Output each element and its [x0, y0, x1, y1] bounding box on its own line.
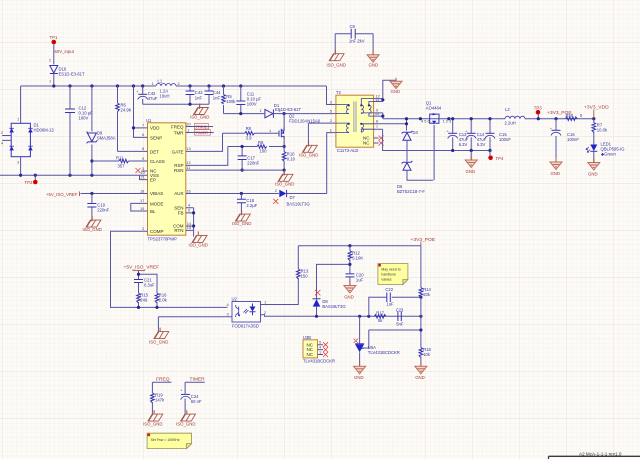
svg-text:1: 1	[49, 79, 51, 84]
wire gate down-run	[192, 133, 223, 151]
svg-text:C44: C44	[213, 90, 221, 95]
svg-text:U3B: U3B	[303, 335, 311, 340]
svg-text:GND: GND	[391, 89, 401, 94]
capacitor C15 100nF	[485, 119, 511, 151]
svg-text:10k: 10k	[423, 352, 431, 357]
svg-text:16: 16	[186, 188, 190, 193]
svg-text:2: 2	[142, 226, 144, 231]
svg-text:HD06M-13: HD06M-13	[34, 128, 55, 133]
wire T2 pin7 to output return	[374, 129, 453, 150]
svg-text:R50: R50	[566, 113, 574, 118]
resistor R13 150	[296, 246, 308, 279]
capacitor C9 1nF 2kV	[335, 24, 373, 44]
svg-text:17: 17	[140, 198, 144, 203]
svg-text:D4: D4	[413, 130, 419, 135]
node Q2 drain junction	[283, 112, 286, 115]
svg-text:AO4484: AO4484	[426, 106, 442, 111]
svg-text:C22: C22	[385, 287, 393, 292]
test point TP1	[50, 35, 58, 44]
resistor R17 5k	[374, 311, 386, 323]
svg-text:100V: 100V	[79, 116, 89, 121]
svg-text:8: 8	[142, 146, 144, 151]
svg-text:1: 1	[187, 127, 189, 132]
svg-text:NC: NC	[363, 140, 370, 145]
wire Q2 drain	[283, 114, 285, 128]
svg-text:R17: R17	[376, 311, 384, 316]
wire +3V3_POE rail lower	[298, 245, 421, 247]
wire output return bus	[453, 150, 490, 152]
svg-text:7: 7	[142, 123, 144, 128]
capacitor C13 47uF 6.3V	[447, 119, 469, 151]
svg-text:2.2µF: 2.2µF	[246, 203, 257, 208]
resistor R14 23k	[419, 246, 431, 317]
diode D8 BAS19LT3G	[313, 299, 346, 318]
capacitor C43 1nF	[186, 86, 204, 104]
svg-text:TPS23770PWP: TPS23770PWP	[148, 237, 178, 242]
svg-text:147k: 147k	[155, 398, 165, 403]
resistor R15 249	[137, 293, 149, 308]
wire bridge bottom	[20, 157, 22, 176]
diode D16 ES1D-E3-61T	[49, 58, 85, 84]
wire Q2 source to R9 node	[283, 140, 285, 146]
svg-text:C43: C43	[195, 90, 203, 95]
svg-text:GND: GND	[354, 375, 364, 380]
svg-text:VDD: VDD	[150, 126, 160, 131]
capacitor C14 47uF 6.3V	[465, 119, 487, 151]
svg-text:24.9K: 24.9K	[121, 108, 132, 113]
svg-text:2: 2	[330, 118, 332, 123]
wire MODE/BL tie	[131, 203, 142, 211]
diode D7 BAS19LT3G	[275, 188, 310, 207]
wire TP1 to D16	[53, 44, 55, 64]
wire RSN row	[192, 169, 285, 171]
wire COMP run	[111, 231, 228, 307]
svg-text:VBIAS: VBIAS	[150, 191, 163, 196]
svg-text:AUX: AUX	[174, 191, 183, 196]
wire VDD/SENP feed	[134, 86, 142, 137]
ground ISO_GND under C19	[83, 216, 102, 232]
svg-text:1: 1	[319, 350, 321, 355]
T2 NC stubs with red X	[374, 138, 379, 143]
svg-text:BAS19LT3G: BAS19LT3G	[322, 304, 345, 309]
svg-text:18: 18	[140, 188, 144, 193]
wire bottom return bus	[0, 174, 142, 176]
zener D4	[402, 130, 419, 161]
wire U2 pin2 row long	[261, 315, 421, 317]
svg-text:FB: FB	[178, 211, 184, 216]
svg-text:TP3: TP3	[534, 105, 542, 110]
inductor L2 2.2uH	[505, 107, 526, 126]
svg-text:220nF: 220nF	[247, 161, 259, 166]
test point TP4	[488, 151, 504, 162]
wire T2 pin8 to D4	[374, 119, 407, 131]
capacitor C42 47uF	[136, 86, 158, 104]
svg-text:5nF: 5nF	[396, 321, 404, 326]
resistor R8 3.9	[245, 126, 255, 141]
svg-text:357: 357	[118, 163, 126, 168]
capacitor C18 2.2uF	[237, 194, 258, 216]
capacitor C11 0.10uF 100V	[236, 86, 261, 114]
wire branch to R16	[139, 274, 158, 293]
svg-text:SMAJ58A: SMAJ58A	[97, 136, 116, 141]
ground GND above T2	[390, 78, 402, 94]
red X near D7	[273, 199, 278, 204]
junction dots lower net	[358, 315, 361, 318]
wire T2 pins 9/10 merge	[374, 113, 383, 119]
svg-text:TIMER: TIMER	[196, 130, 209, 135]
svg-text:100nF: 100nF	[567, 137, 579, 142]
svg-text:5: 5	[330, 108, 332, 113]
wire T2 pins 11/12 to GND	[374, 80, 396, 101]
inductor L1 1.2A 10uH	[152, 79, 180, 99]
svg-text:ISO_GND: ISO_GND	[327, 63, 346, 68]
ground ISO_GND pin3 run	[149, 328, 169, 345]
resistor R11 357	[92, 155, 142, 168]
svg-text:L1: L1	[158, 79, 163, 84]
svg-text:3.9: 3.9	[246, 136, 252, 141]
LED LED1 QBLP595-IG	[586, 142, 624, 163]
ground ISO_GND under C9 left	[327, 50, 346, 68]
ground ISO_GND primary return	[299, 141, 318, 157]
capacitor C24 60nF	[180, 388, 202, 416]
svg-text:100V: 100V	[247, 102, 257, 107]
wire VBIAS row	[81, 193, 142, 195]
svg-text:BL: BL	[150, 209, 156, 214]
red X near D8	[315, 290, 321, 296]
svg-text:ISO_GND: ISO_GND	[275, 181, 294, 186]
svg-text:ISO_GND: ISO_GND	[232, 221, 251, 226]
svg-text:1uF: 1uF	[386, 302, 394, 307]
resistor R12 5.10K	[348, 244, 363, 274]
power port +5V_ISO_VREF lower	[124, 265, 160, 280]
svg-text:21: 21	[141, 174, 145, 179]
svg-text:2: 2	[1, 130, 3, 135]
svg-text:GND: GND	[588, 171, 598, 176]
net label FREQ bottom	[152, 377, 171, 393]
svg-text:ISO_GND: ISO_GND	[190, 115, 209, 120]
svg-text:GND: GND	[369, 63, 379, 68]
svg-text:2: 2	[275, 188, 277, 193]
transistor Q1 AO4484	[421, 101, 451, 181]
ground GND under U5A	[354, 362, 366, 380]
net label FREQ (boxed)	[192, 124, 214, 129]
svg-text:249: 249	[140, 298, 148, 303]
resistor R7 10.0k	[592, 119, 608, 145]
ground ISO_GND under C18	[232, 210, 251, 226]
svg-text:ES1D-E3-61T: ES1D-E3-61T	[59, 72, 86, 77]
optocoupler U2 FOD617A3SD	[227, 296, 267, 328]
ground GND under C9 right	[367, 50, 379, 67]
svg-text:4 5 6: 4 5 6	[421, 119, 430, 124]
svg-text:23k: 23k	[423, 292, 431, 297]
svg-text:U2: U2	[232, 296, 238, 301]
svg-text:L2: L2	[505, 107, 510, 112]
test point TP3	[534, 105, 542, 120]
zener D6 BZT52C18-7-F	[397, 161, 433, 194]
ground ISO_GND under R10	[275, 170, 294, 186]
net label TIMER bottom	[185, 377, 205, 395]
svg-text:BAS19LT3G: BAS19LT3G	[287, 202, 310, 207]
svg-text:3: 3	[330, 99, 332, 104]
resistor R18 10k	[419, 347, 431, 366]
svg-text:Set Fsw = 100KHz: Set Fsw = 100KHz	[151, 438, 180, 442]
svg-text:May need to: May need to	[381, 268, 400, 272]
wire ref row	[363, 316, 421, 348]
wire C9 right leg	[372, 34, 374, 55]
capacitor C20 1uF	[345, 272, 364, 285]
wire D16 to top bus	[53, 74, 55, 87]
svg-text:9: 9	[142, 156, 144, 161]
svg-text:C23: C23	[396, 307, 404, 312]
svg-text:100: 100	[260, 149, 268, 154]
svg-text:ES1D-E3-61T: ES1D-E3-61T	[275, 107, 302, 112]
ground ISO_GND under C24	[176, 410, 195, 427]
wire T2 pin1 aux run	[327, 133, 336, 194]
junction dots bottom bus	[19, 174, 22, 177]
transistor Q2 FDD120AN15A0	[269, 114, 321, 141]
svg-text:220nF: 220nF	[97, 208, 109, 213]
wire U2 pin3 row	[158, 317, 232, 333]
svg-text:19: 19	[140, 206, 144, 211]
resistor R6 24.9K	[116, 86, 132, 151]
wire RSP jog	[192, 147, 228, 166]
svg-text:100nF: 100nF	[499, 137, 511, 142]
svg-text:TLV431BCDCKR: TLV431BCDCKR	[303, 359, 335, 364]
svg-text:1: 1	[330, 127, 332, 132]
svg-text:ISO_GND: ISO_GND	[176, 422, 195, 427]
svg-text:MODE: MODE	[150, 201, 164, 206]
svg-text:6: 6	[142, 132, 144, 137]
svg-text:1nF: 1nF	[195, 96, 203, 101]
net label +3V3_POE lower	[411, 237, 436, 246]
svg-text:RSN: RSN	[174, 168, 184, 173]
capacitor C44 1nF	[205, 86, 222, 104]
svg-text:ISO_GND: ISO_GND	[149, 340, 168, 345]
svg-text:TP4: TP4	[496, 156, 504, 161]
transformer T2 C1173-ALD body	[330, 90, 380, 153]
wire R6 to DET	[118, 150, 142, 152]
wire T2 pin2 return	[308, 123, 336, 146]
capacitor C22 1uF	[369, 287, 423, 316]
svg-text:ISO_GND: ISO_GND	[143, 422, 162, 427]
U1 right pin stubs	[186, 127, 194, 231]
svg-text:6.3V: 6.3V	[459, 142, 468, 147]
svg-text:2: 2	[178, 81, 180, 86]
wire drain node to T2 pin5	[284, 113, 336, 115]
ground GND under C16	[550, 158, 562, 176]
svg-text:GATE: GATE	[172, 149, 184, 154]
U1 pin numbers	[140, 121, 192, 231]
svg-text:10.0k: 10.0k	[597, 128, 608, 133]
wire top bus corner to T2 pin3	[327, 86, 336, 105]
svg-text:U1: U1	[146, 118, 152, 123]
svg-text:◆Green: ◆Green	[601, 151, 617, 156]
svg-text:TP2: TP2	[25, 180, 33, 185]
svg-text:GND: GND	[551, 171, 561, 176]
svg-text:+3V3_VDD: +3V3_VDD	[584, 105, 609, 111]
svg-text:60V_input: 60V_input	[55, 49, 75, 54]
svg-text:2.2uH: 2.2uH	[505, 121, 516, 126]
junction dots rail	[419, 117, 422, 120]
svg-text:EP: EP	[150, 178, 156, 183]
svg-text:2.0k: 2.0k	[159, 298, 168, 303]
svg-text:3: 3	[17, 160, 19, 165]
part U3B TLV431BCDCKR	[303, 335, 335, 364]
svg-text:1: 1	[260, 108, 262, 113]
capacitor C17 220nF	[238, 145, 260, 172]
svg-text:150: 150	[301, 274, 309, 279]
wire secondary rail	[383, 118, 594, 120]
net label +5V_ISO_VREF left	[46, 192, 80, 198]
U1 left pin stubs	[142, 128, 148, 231]
svg-text:47uF: 47uF	[148, 96, 158, 101]
red X no-connect NC pin	[136, 168, 141, 173]
svg-text:SENP: SENP	[150, 135, 162, 140]
svg-text:GND: GND	[415, 375, 425, 380]
svg-text:5.10K: 5.10K	[352, 255, 363, 260]
svg-text:COMP: COMP	[150, 229, 164, 234]
wire top input bus	[21, 85, 156, 87]
svg-text:TLV431BCDCKR: TLV431BCDCKR	[368, 350, 400, 355]
svg-text:NC: NC	[307, 352, 314, 357]
junction dots on top bus	[52, 84, 55, 87]
svg-text:8: 8	[376, 119, 378, 124]
wire D9 to R11 junction	[90, 159, 93, 162]
resistor R16 2.0k	[155, 293, 167, 308]
capacitor C16 100nF	[550, 117, 580, 162]
svg-text:T2: T2	[336, 90, 342, 95]
svg-text:13: 13	[186, 146, 190, 151]
svg-text:handtune: handtune	[381, 273, 396, 277]
test point TP2	[25, 175, 38, 185]
svg-text:FDD120AN15A0: FDD120AN15A0	[289, 118, 321, 123]
svg-text:2: 2	[49, 58, 51, 63]
svg-text:FOD617A3SD: FOD617A3SD	[232, 323, 259, 328]
svg-text:D7: D7	[290, 195, 296, 200]
svg-text:+3V3_POE: +3V3_POE	[411, 237, 436, 243]
resistor R50 0	[566, 113, 584, 120]
svg-text:CLASS: CLASS	[150, 159, 165, 164]
ground ISO_GND under C43/C44	[190, 104, 209, 120]
svg-text:0.10: 0.10	[287, 157, 296, 162]
svg-text:GND: GND	[344, 294, 354, 299]
note Set Fsw = 100KHz	[147, 433, 192, 448]
capacitor C19 220nF	[87, 194, 109, 222]
wire bridge left pins	[2, 136, 11, 141]
svg-text:1: 1	[264, 300, 266, 305]
power port +3V3_VDD	[584, 105, 609, 121]
svg-text:ISO_GND: ISO_GND	[83, 227, 102, 232]
svg-text:R8: R8	[246, 126, 252, 131]
wire EP tie to VSS	[140, 175, 142, 179]
svg-text:ISO_GND: ISO_GND	[299, 152, 318, 157]
svg-text:10uH: 10uH	[160, 94, 170, 99]
resistor R10 0.10	[282, 147, 295, 171]
svg-text:R9: R9	[258, 140, 264, 145]
ground ISO_GND under RTN	[189, 230, 208, 247]
svg-text:100k: 100k	[226, 99, 236, 104]
capacitor C21 0.3uF	[134, 278, 155, 293]
svg-text:RTN: RTN	[174, 228, 183, 233]
ground GND under R18	[415, 362, 427, 380]
svg-text:values: values	[381, 278, 391, 282]
svg-text:1: 1	[269, 128, 271, 133]
svg-text:11: 11	[186, 165, 190, 170]
shunt regulator U5A TLV431BCDCKR	[354, 316, 400, 366]
svg-text:GND: GND	[466, 169, 476, 174]
bridge rectifier D1 HD06M-13	[1, 117, 54, 165]
svg-text:15: 15	[187, 225, 191, 230]
wire gate R8 row	[223, 132, 280, 134]
svg-text:FREQ: FREQ	[196, 124, 207, 129]
resistor R9 100	[228, 140, 284, 154]
wire C9 left leg	[334, 34, 336, 55]
svg-text:C1173-ALD: C1173-ALD	[337, 148, 359, 153]
svg-text:2: 2	[264, 310, 266, 315]
svg-text:DET: DET	[150, 149, 159, 154]
svg-text:FREQ: FREQ	[171, 124, 184, 129]
svg-text:1nF: 1nF	[213, 96, 221, 101]
svg-text:60 nF: 60 nF	[191, 399, 202, 404]
ground GND under cap bank	[465, 151, 477, 174]
svg-text:ISO_GND: ISO_GND	[189, 243, 208, 248]
zener D9 SMAJ58A	[87, 86, 116, 175]
net label TIMER (boxed)	[192, 130, 214, 135]
wire D8 top run	[317, 264, 350, 298]
junction C43 bottom	[188, 103, 191, 106]
svg-text:6.3V: 6.3V	[477, 142, 486, 147]
resistor R5 100k	[222, 86, 237, 114]
capacitor C12 0.10uF 100V	[65, 86, 93, 175]
svg-text:A2 McA-1-1-1 rev1.0: A2 McA-1-1-1 rev1.0	[579, 451, 622, 456]
wire SEN/FB/COM/RTN tie	[193, 208, 195, 231]
wire C42 bottom rail	[143, 103, 209, 105]
svg-text:1uF: 1uF	[356, 277, 364, 282]
capacitor C23 5nF	[396, 307, 404, 326]
diode D1 ES1D-E3-61T	[260, 103, 302, 118]
note May need to handtune values	[378, 264, 408, 285]
ground GND under C20	[344, 281, 356, 299]
svg-text:C9: C9	[350, 24, 356, 29]
svg-text:1: 1	[152, 81, 154, 86]
ground ISO_GND under R19	[143, 410, 163, 427]
wire R5/C11 bottom to D1	[224, 113, 265, 115]
svg-text:BZT52C18-7-F: BZT52C18-7-F	[397, 189, 425, 194]
resistor R19 147k	[151, 393, 165, 416]
svg-text:TP1: TP1	[50, 35, 58, 40]
svg-text:+5V_ISO_VREF: +5V_ISO_VREF	[124, 265, 160, 271]
svg-text:TMR: TMR	[174, 130, 184, 135]
svg-text:+5V_ISO_VREF: +5V_ISO_VREF	[46, 192, 78, 197]
svg-text:0.3uF: 0.3uF	[144, 283, 155, 288]
svg-text:1nF 2kV: 1nF 2kV	[349, 39, 365, 44]
svg-text:7: 7	[376, 124, 378, 129]
wire AUX row	[192, 193, 327, 195]
svg-text:1: 1	[17, 117, 19, 122]
wire U2 pin1 to R13	[261, 278, 299, 305]
title block fragment	[549, 451, 640, 459]
op-amp U1 TPS23770PWP body	[146, 118, 186, 242]
svg-text:R11: R11	[116, 155, 124, 160]
wire bridge top	[20, 86, 22, 123]
svg-text:5: 5	[188, 208, 190, 213]
wire top bus after L1	[176, 85, 327, 87]
ground GND under LED1	[588, 158, 600, 176]
svg-text:3: 3	[227, 312, 229, 317]
